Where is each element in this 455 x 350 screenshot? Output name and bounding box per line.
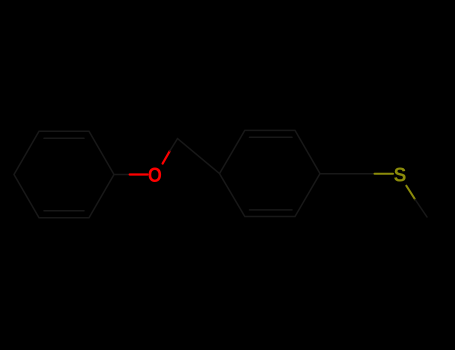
svg-text:S: S xyxy=(394,164,407,187)
bond C1-O red half xyxy=(130,173,148,175)
bond ring-S carbon part xyxy=(320,173,375,175)
bond O-CH2 carbon half xyxy=(170,139,178,151)
bond ring-S olive part xyxy=(375,173,394,175)
benzene ring left (phenyl) outline xyxy=(14,131,114,218)
bond S-CH3 olive half xyxy=(406,186,415,200)
svg-text:O: O xyxy=(148,164,162,188)
central ring double bond inner line top xyxy=(250,136,293,138)
atom S (thioether sulfur) xyxy=(394,164,407,187)
bond S-CH3 carbon half xyxy=(415,199,427,217)
benzene ring central outline xyxy=(220,130,321,216)
bond CH2-ring xyxy=(178,139,220,174)
left ring double bond inner line bottom xyxy=(44,210,84,212)
atom O (ether oxygen) xyxy=(148,164,162,188)
bond C1-O carbon half xyxy=(114,174,130,176)
left ring double bond inner line top xyxy=(44,137,84,139)
bond O-CH2 red half xyxy=(163,151,170,164)
central ring double bond inner line bottom xyxy=(250,209,293,211)
